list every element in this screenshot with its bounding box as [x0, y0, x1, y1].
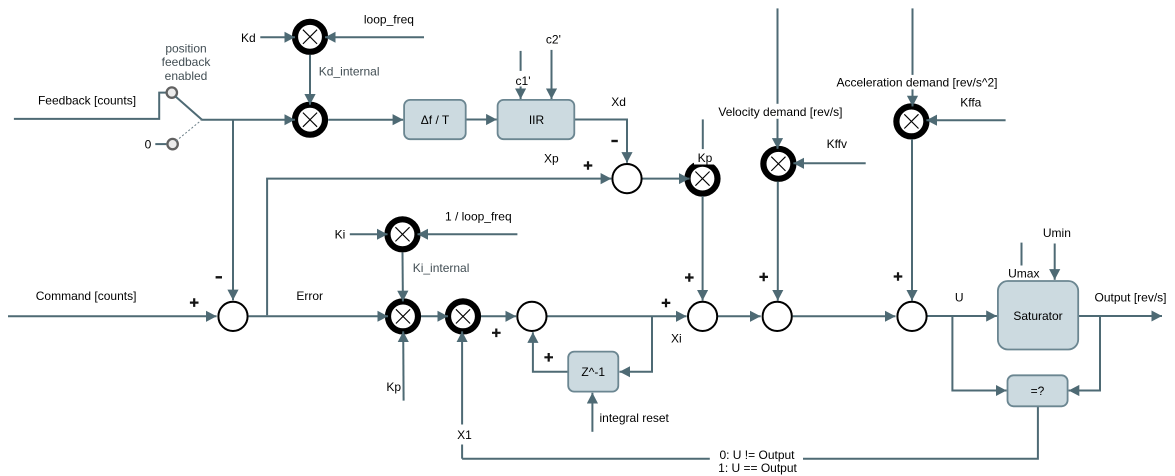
- wire c2' into IIR: [551, 50, 553, 99]
- block Saturator: [998, 281, 1078, 350]
- wire M4 to M5: [421, 315, 448, 317]
- svg-text:Kp: Kp: [386, 380, 401, 394]
- svg-text:Feedback [counts]: Feedback [counts]: [38, 94, 136, 108]
- wire M6 down to sum S3: [702, 196, 704, 301]
- svg-text:U: U: [955, 291, 964, 305]
- svg-text:Umax: Umax: [1008, 266, 1039, 280]
- wire Kffv to M7: [793, 162, 865, 164]
- svg-text:Kd_internal: Kd_internal: [319, 65, 380, 79]
- svg-text:1: U == Output: 1: U == Output: [718, 461, 797, 475]
- wire bottom left part to X1 corner: [462, 458, 710, 460]
- wire Error from S1 to M4: [249, 315, 388, 317]
- wire M8 down to sum S5: [911, 139, 913, 301]
- sum S2 integrator: [517, 302, 546, 331]
- wire Feedback input: [14, 93, 166, 119]
- wire Umin into Saturator: [1054, 244, 1056, 280]
- wire U branch down to =? left: [952, 316, 1006, 391]
- wire Kd to multiplier M1: [260, 36, 295, 38]
- svg-text:Kd: Kd: [241, 31, 256, 45]
- wire Ki to multiplier M3: [350, 233, 388, 235]
- wire S4 to S5: [793, 315, 896, 317]
- sign + velocity into S4: [759, 273, 768, 282]
- svg-text:Umin: Umin: [1043, 226, 1071, 240]
- svg-text:Ki: Ki: [335, 228, 346, 242]
- svg-text:Saturator: Saturator: [1013, 309, 1062, 323]
- wire IIR to sum S6 (Xd, minus): [574, 120, 627, 163]
- wire Umax dangling segment: [1021, 243, 1023, 266]
- svg-text:0: U != Output: 0: U != Output: [719, 448, 795, 462]
- wire velocity demand into M7: [777, 119, 779, 149]
- wire Xi branch down into Z^-1: [620, 316, 653, 372]
- svg-text:Command [counts]: Command [counts]: [36, 289, 137, 303]
- svg-text:c1': c1': [516, 74, 531, 88]
- sign + integrator feedback: [544, 353, 553, 362]
- svg-text:IIR: IIR: [529, 113, 545, 127]
- svg-text:position: position: [165, 42, 206, 56]
- block IIR: [498, 100, 575, 139]
- multiplier M6 Kp: [688, 164, 718, 194]
- sign + after M5: [492, 329, 501, 338]
- wire Ki_internal M3 to M4: [402, 253, 404, 302]
- wire acceleration demand vertical upper: [912, 8, 914, 75]
- svg-text:Kffa: Kffa: [960, 96, 981, 110]
- label Kp top (white background over ring): [694, 152, 715, 165]
- sign + Xp: [584, 161, 593, 170]
- switch contact circle bottom (0): [167, 139, 177, 149]
- sign + command: [190, 298, 199, 307]
- svg-text:Acceleration demand [rev/s^2]: Acceleration demand [rev/s^2]: [836, 76, 997, 90]
- wire Kp up into M4: [402, 331, 404, 400]
- svg-text:Ki_internal: Ki_internal: [413, 261, 470, 275]
- wire integral reset into Z^-1: [591, 393, 593, 432]
- wire Kd_internal M1 to M2: [309, 55, 311, 105]
- svg-text:Xi: Xi: [671, 331, 682, 345]
- block Delta f / T: [404, 100, 466, 139]
- svg-text:enabled: enabled: [165, 69, 208, 83]
- wire loop_freq to multiplier M1: [325, 36, 424, 38]
- wire Delta f/T to IIR: [466, 119, 497, 121]
- block Z^-1: [568, 352, 618, 392]
- sign + Xi into S3: [662, 299, 671, 308]
- wire X1 up into M5 lower segment: [461, 445, 463, 459]
- wire feedback branch down to sum S1 minus input: [232, 120, 234, 301]
- wire M7 down to sum S4: [777, 182, 779, 301]
- svg-text:integral reset: integral reset: [600, 411, 670, 425]
- wire Kp dangling segment: [702, 119, 704, 149]
- sum S4 + velocity ff: [763, 302, 792, 331]
- multiplier M5 x X1: [448, 301, 478, 331]
- wire velocity demand vertical upper: [777, 8, 779, 103]
- wire Kffa to M8: [926, 119, 1005, 121]
- svg-text:=?: =?: [1031, 384, 1045, 398]
- wire M5 to integrator sum S2: [481, 315, 516, 317]
- multiplier M4 error x Ki_internal x Kp: [388, 301, 418, 331]
- svg-text:0: 0: [145, 137, 152, 151]
- svg-text:feedback: feedback: [162, 55, 212, 69]
- wire sum S6 to multiplier M6: [642, 178, 689, 180]
- wire M2 to Delta f/T box: [328, 119, 403, 121]
- multiplier M7 velocity x Kffv: [763, 149, 793, 179]
- svg-text:X1: X1: [457, 428, 472, 442]
- svg-text:Xd: Xd: [611, 95, 626, 109]
- wire Saturator to Output: [1078, 315, 1162, 317]
- wire c1' upper segment: [520, 51, 522, 71]
- wire switch to multiplier M2: [202, 119, 295, 121]
- wire Command input to sum S1: [8, 315, 217, 317]
- svg-text:Xp: Xp: [544, 152, 559, 166]
- sum S1 command - feedback: [218, 302, 247, 331]
- wire S5 to Saturator (U): [928, 315, 997, 317]
- sum S3 Xi + Kp path: [688, 302, 717, 331]
- block =? comparator: [1008, 375, 1068, 406]
- wire S3 to S4: [718, 315, 761, 317]
- svg-text:Velocity demand [rev/s]: Velocity demand [rev/s]: [718, 105, 842, 119]
- wire X1 up into M5 upper segment: [461, 331, 463, 424]
- switch arm: [175, 96, 202, 119]
- multiplier M1 Kd x loop_freq: [295, 22, 325, 52]
- sign - Xd into S6: [611, 140, 617, 142]
- wire Output branch down to =? right: [1069, 316, 1100, 391]
- svg-text:loop_freq: loop_freq: [364, 12, 414, 26]
- wire =? down and along bottom (right part): [803, 406, 1038, 458]
- wire 1/loop_freq to M3: [418, 233, 518, 235]
- sign + acceleration into S5: [894, 272, 903, 281]
- svg-text:c2': c2': [546, 33, 561, 47]
- svg-text:Kffv: Kffv: [827, 137, 847, 151]
- sign - feedback into S1: [216, 276, 222, 278]
- wire Xp branch from Error up into sum S6: [267, 179, 611, 316]
- wire c1' arrow into IIR: [520, 87, 522, 100]
- multiplier M3 Ki x 1/loop_freq: [388, 219, 418, 249]
- switch contact circle top (position feedback): [167, 87, 177, 97]
- sum S6 Xp - Xd: [612, 164, 641, 193]
- svg-text:Z^-1: Z^-1: [581, 365, 605, 379]
- sum S5 + acceleration ff: [897, 302, 926, 331]
- wire S2 to sum S3 (Xi): [547, 315, 687, 317]
- svg-text:Δf / T: Δf / T: [421, 113, 450, 127]
- svg-text:Output [rev/s]: Output [rev/s]: [1094, 291, 1166, 305]
- wire acceleration demand into M8: [912, 89, 914, 106]
- multiplier M8 acceleration x Kffa: [896, 106, 926, 136]
- multiplier M2 feedback x Kd_internal: [295, 105, 325, 135]
- wire Z^-1 back into S2: [533, 332, 568, 372]
- sign + Kp path into S3: [685, 273, 694, 282]
- svg-text:Error: Error: [296, 289, 323, 303]
- wire 0 to switch contact: [155, 143, 166, 145]
- switch open path (dashed): [176, 120, 202, 141]
- svg-text:1 / loop_freq: 1 / loop_freq: [445, 210, 512, 224]
- svg-text:Kp: Kp: [698, 151, 713, 165]
